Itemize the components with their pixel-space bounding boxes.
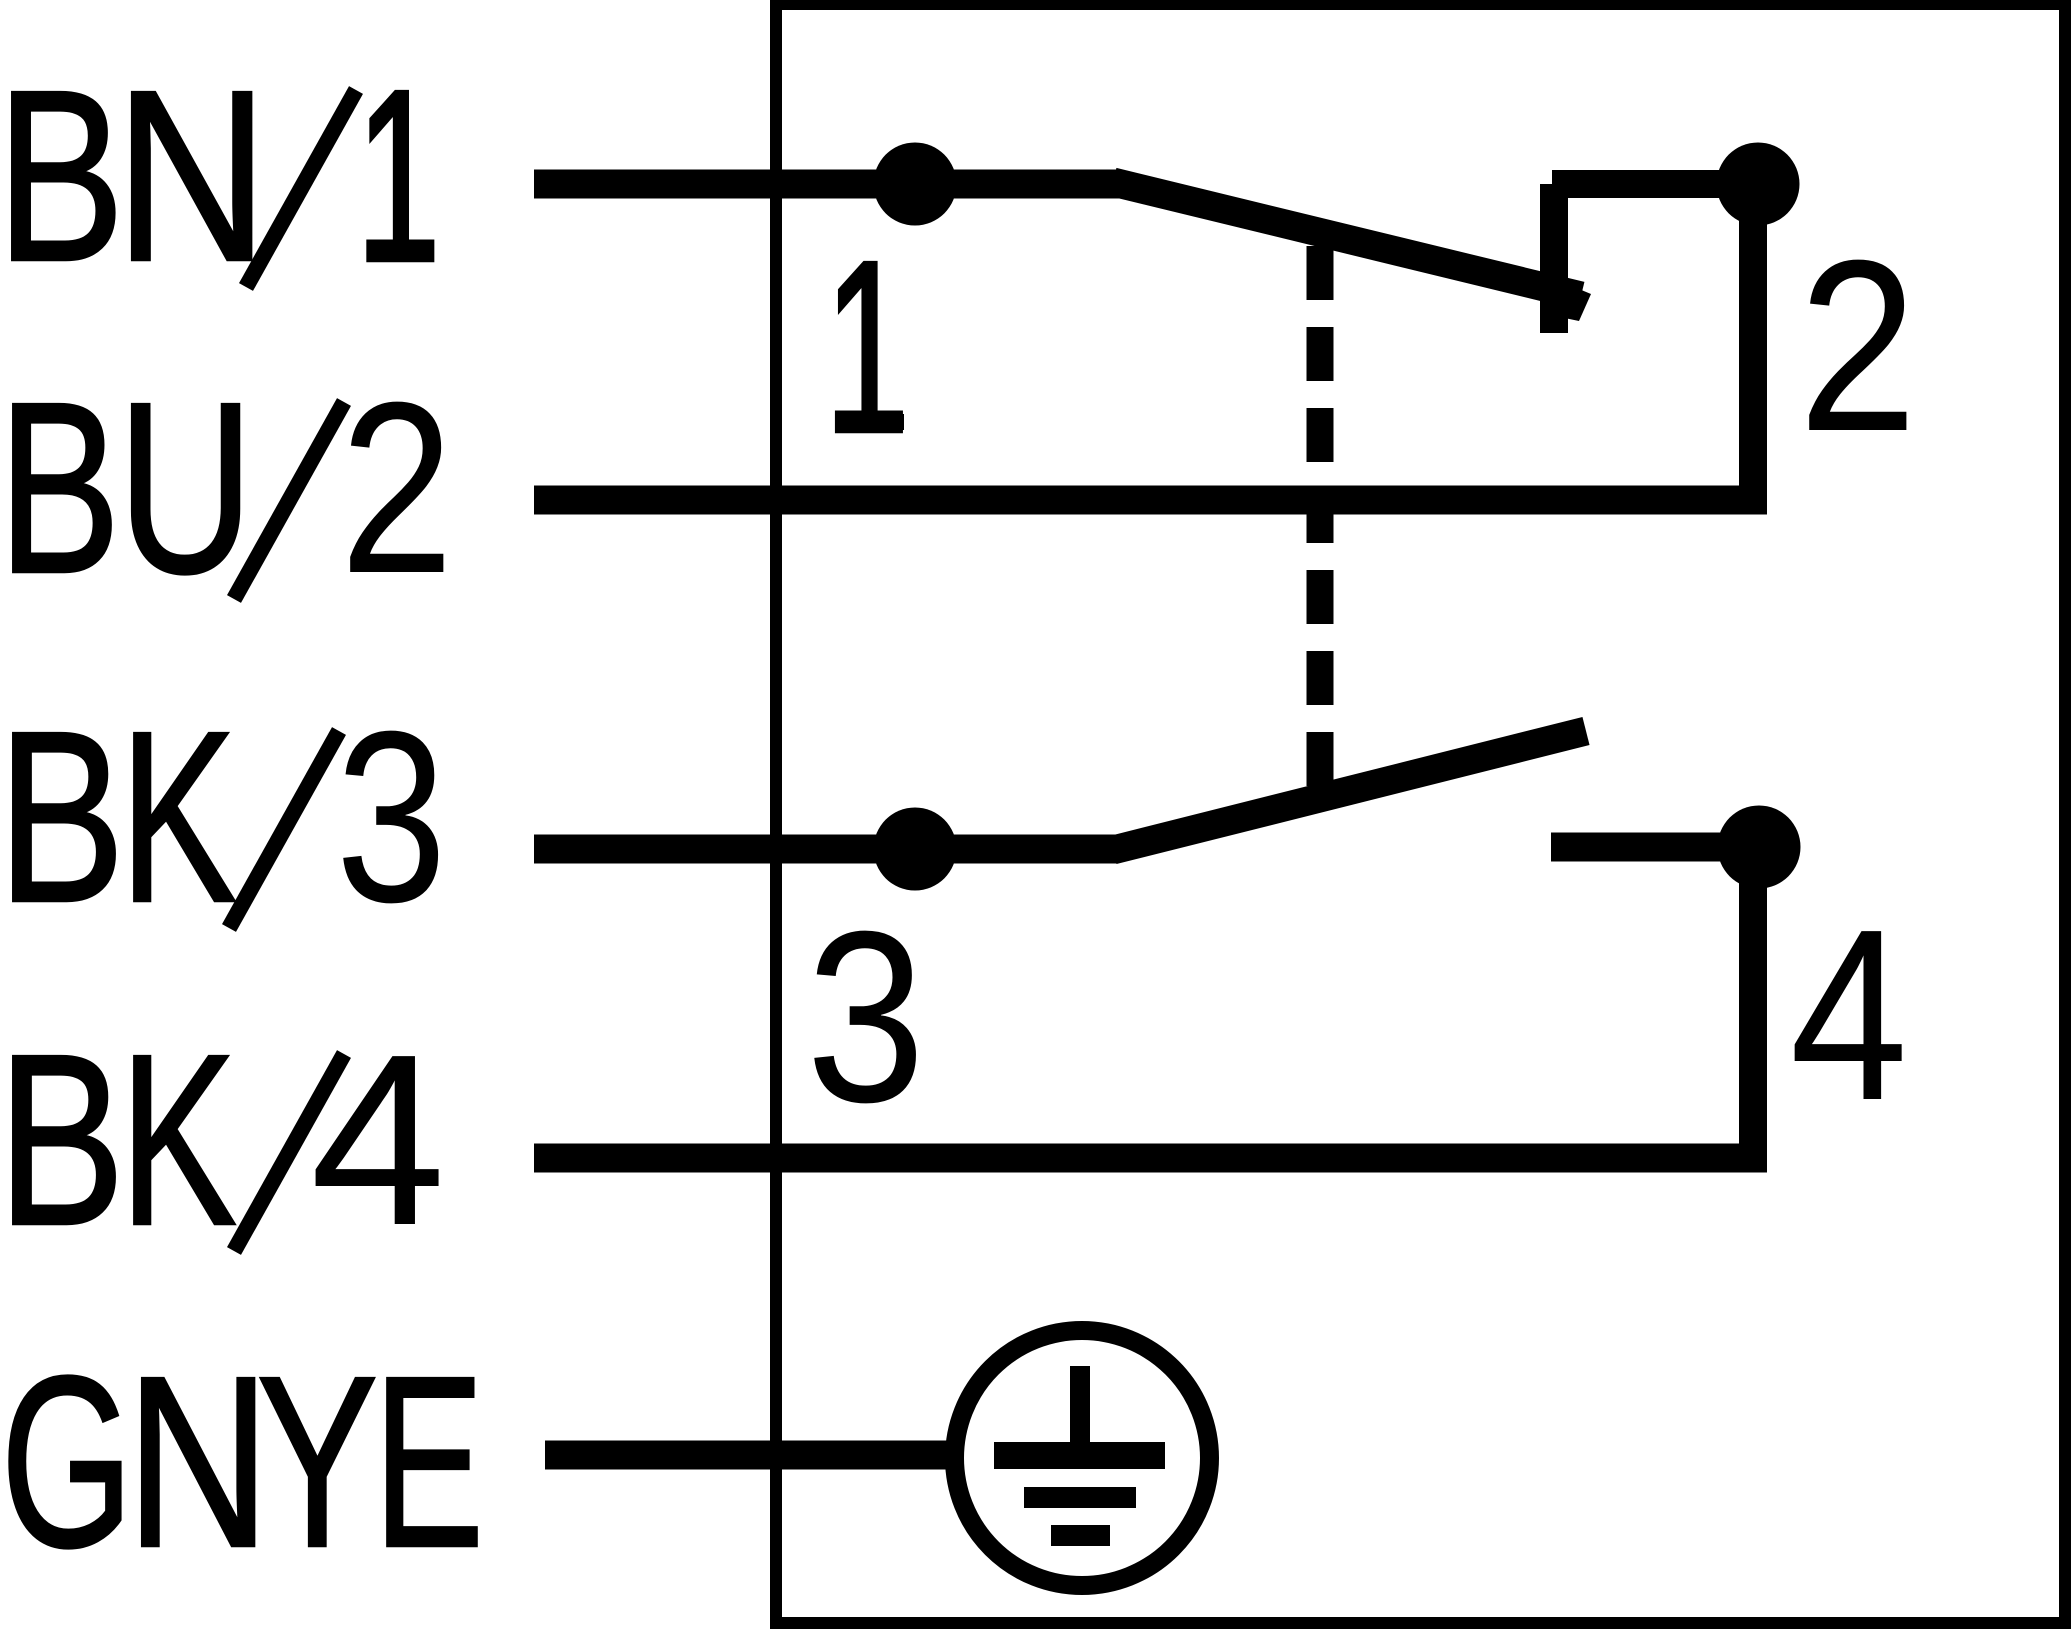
svg-text:1: 1 bbox=[825, 211, 909, 484]
svg-text:B: B bbox=[0, 681, 125, 954]
wire BK/3 bbox=[534, 835, 1118, 864]
label BU/2 bbox=[0, 351, 454, 625]
svg-text:Y: Y bbox=[257, 1325, 379, 1598]
svg-text:G: G bbox=[1, 1325, 134, 1598]
wire terminal 4 drop bbox=[1739, 847, 1767, 1158]
svg-text:4: 4 bbox=[310, 1003, 446, 1276]
svg-text:B: B bbox=[0, 351, 121, 624]
junction dot terminal 2 bbox=[1717, 143, 1800, 226]
wire BN/1 bbox=[534, 170, 1122, 199]
svg-text:1: 1 bbox=[356, 40, 440, 313]
svg-text:3: 3 bbox=[806, 880, 925, 1153]
svg-text:N: N bbox=[115, 39, 269, 313]
svg-text:2: 2 bbox=[340, 351, 454, 624]
protective earth symbol circle bbox=[955, 1331, 1210, 1586]
earth bar top bbox=[994, 1442, 1165, 1469]
junction dot terminal 1 bbox=[874, 143, 957, 226]
contact 1-2 blade chisel tip bbox=[1550, 277, 1591, 321]
label BK/4 bbox=[0, 1003, 446, 1277]
contact 2 hook horizontal bbox=[1552, 170, 1758, 198]
switch contact 1-2 blade bbox=[1113, 182, 1581, 296]
wire BK/4 bbox=[534, 1144, 1767, 1173]
svg-text:B: B bbox=[0, 1004, 125, 1277]
svg-text:K: K bbox=[120, 682, 237, 954]
contact 4 fixed stub bbox=[1551, 833, 1759, 862]
svg-text:U: U bbox=[117, 352, 254, 625]
svg-text:N: N bbox=[126, 1327, 271, 1599]
label BK/3 bbox=[0, 681, 447, 954]
svg-text:K: K bbox=[120, 1005, 237, 1277]
svg-text:E: E bbox=[373, 1326, 484, 1598]
enclosure box border bbox=[770, 0, 2071, 1629]
switch contact 3-4 blade bbox=[1113, 731, 1586, 850]
mechanical link dashed line bbox=[1307, 246, 1334, 786]
label BN/1 bbox=[0, 39, 440, 313]
earth stem bbox=[1070, 1366, 1090, 1446]
pin number 1 bbox=[825, 211, 909, 484]
wire terminal 2 drop bbox=[1739, 184, 1767, 500]
wire BU/2 bbox=[534, 486, 1767, 515]
junction dot terminal 4 bbox=[1718, 806, 1801, 889]
label GNYE bbox=[1, 1325, 484, 1599]
svg-text:2: 2 bbox=[1799, 210, 1918, 483]
svg-text:4: 4 bbox=[1790, 879, 1908, 1151]
wire GNYE bbox=[545, 1441, 950, 1470]
earth bar bottom bbox=[1051, 1525, 1110, 1546]
svg-text:B: B bbox=[0, 39, 125, 312]
svg-text:3: 3 bbox=[336, 681, 447, 953]
junction dot terminal 3 bbox=[874, 808, 957, 891]
earth bar middle bbox=[1024, 1487, 1136, 1508]
contact 2 hook vertical bbox=[1540, 184, 1568, 333]
